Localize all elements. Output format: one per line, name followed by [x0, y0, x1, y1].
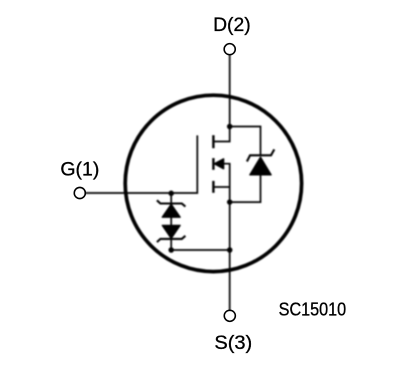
zener diode Z2 (gate protection, cathode down) triangle [162, 225, 180, 238]
MOSFET U1 middle channel bar (body) [212, 158, 214, 170]
terminal S(3) circle [224, 310, 235, 321]
wire body-diode bottom to source node [230, 175, 261, 202]
svg-text:D(2): D(2) [213, 15, 251, 36]
terminal G(1) circle [74, 187, 85, 198]
node: source junction upper [227, 199, 233, 205]
MOSFET U1 bottom channel bar (source) [212, 181, 214, 193]
zener diode Z1 triangle [162, 204, 180, 217]
wire gate: G terminal to gate line [85, 135, 197, 193]
wire gate zener chain vertical [170, 193, 172, 250]
transistor envelope circle [125, 95, 301, 271]
body zener diode Z3 bar (cathode, drain side) [247, 149, 274, 161]
zener diode Z2 bar [157, 236, 186, 242]
MOSFET U1 top channel bar (drain) [212, 135, 214, 148]
svg-text:SC15010: SC15010 [279, 300, 347, 320]
zener diode Z1 (gate protection, cathode up) bar [157, 200, 186, 206]
wire body connection (arrow to source node) [224, 164, 230, 202]
wire drain node to body-diode top [230, 127, 261, 156]
wire drain contact into MOSFET [213, 127, 229, 142]
node: gate wire / zener top junction [168, 191, 174, 197]
node: drain junction [227, 124, 233, 130]
wire source: source node to S terminal [229, 202, 231, 311]
MOSFET U1 body arrow [214, 159, 223, 169]
wire zener bottom to source line [171, 249, 230, 251]
wire source contact [213, 186, 229, 188]
terminal D(2) circle [224, 44, 235, 55]
wire drain: D terminal to drain node [229, 55, 231, 127]
svg-text:S(3): S(3) [214, 333, 252, 354]
node: zener bottom junction [168, 247, 174, 253]
svg-text:G(1): G(1) [60, 159, 99, 180]
body zener diode Z3 triangle [250, 157, 271, 175]
node: source junction lower [227, 247, 233, 253]
